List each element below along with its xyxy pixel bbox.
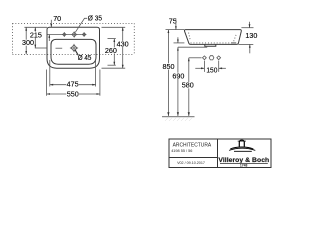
dim 580	[188, 58, 190, 117]
supply hole right diamond	[217, 56, 221, 60]
dim 300	[25, 27, 27, 54]
drain (Ø45)	[70, 44, 78, 52]
svg-text:430: 430	[117, 39, 129, 48]
svg-text:1748: 1748	[240, 163, 248, 167]
countertop line	[178, 46, 207, 48]
svg-text:Ø 45: Ø 45	[78, 53, 92, 62]
bottom extension right	[238, 43, 253, 45]
dim 215	[34, 27, 36, 48]
dim 150	[195, 67, 204, 69]
svg-text:300: 300	[22, 38, 34, 47]
svg-text:690: 690	[172, 71, 184, 80]
deck line through tap holes	[48, 34, 82, 36]
V&B logo crest	[229, 140, 255, 151]
basin profile	[184, 30, 241, 45]
supply holes extension	[189, 57, 202, 59]
svg-text:850: 850	[163, 62, 175, 71]
drain stub	[205, 44, 216, 46]
svg-text:130: 130	[245, 31, 257, 40]
inner-bottom extension line	[174, 42, 185, 44]
rim extension left	[24, 26, 47, 28]
svg-text:4198 55 / 56: 4198 55 / 56	[171, 148, 192, 153]
arrow down to inner-bottom	[177, 37, 179, 42]
leader Ø35	[75, 18, 87, 32]
rim extension right	[241, 27, 253, 29]
tap hole left cross	[62, 32, 67, 37]
rim extension left	[166, 29, 185, 31]
table frame	[169, 139, 271, 168]
overflow slot	[56, 47, 63, 49]
svg-text:70: 70	[53, 14, 61, 23]
logo rule	[220, 162, 268, 164]
dim 850	[167, 30, 169, 117]
basin outer outline	[47, 27, 100, 68]
svg-text:550: 550	[67, 89, 79, 98]
svg-text:V02 / 09.10.2017: V02 / 09.10.2017	[177, 160, 205, 165]
tap hole centre (Ø35)	[71, 32, 77, 38]
dim 430	[122, 27, 124, 68]
dim 550	[47, 93, 100, 95]
dim 130	[249, 22, 251, 28]
wall dotted rectangle	[13, 23, 135, 54]
wall drain hexagon	[209, 56, 214, 60]
svg-text:580: 580	[182, 81, 194, 90]
dim 260 extension lines	[108, 38, 116, 40]
dim 475	[50, 84, 96, 86]
svg-text:150: 150	[206, 65, 217, 74]
inner contour dotted	[189, 33, 237, 43]
extension to drain centre	[35, 47, 47, 49]
basin inner bowl	[51, 39, 96, 64]
dim 550 extension lines	[46, 70, 48, 96]
dim 475 extension lines	[49, 60, 51, 87]
dim 690	[177, 47, 179, 116]
svg-text:Ø 35: Ø 35	[88, 14, 102, 23]
tap hole right cross	[82, 32, 87, 37]
svg-text:475: 475	[67, 80, 79, 89]
dim 260	[113, 39, 115, 66]
leader Ø45	[75, 50, 78, 56]
floor line	[162, 116, 195, 118]
floor hatching	[165, 118, 192, 121]
dim 150 extensions	[203, 61, 205, 72]
dim 430 extension lines	[102, 26, 126, 28]
supply hole left diamond	[203, 56, 207, 60]
svg-text:260: 260	[105, 46, 117, 55]
